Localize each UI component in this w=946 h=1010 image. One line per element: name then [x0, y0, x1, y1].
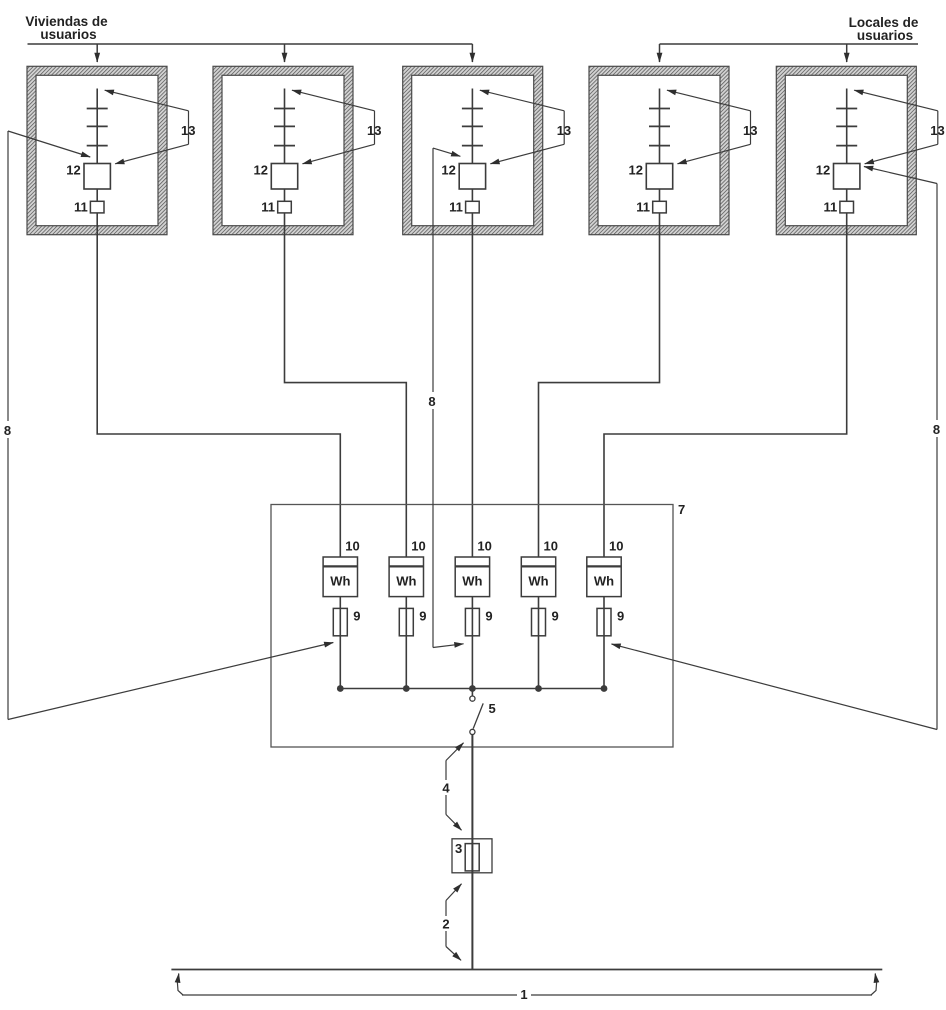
svg-text:10: 10	[477, 539, 491, 554]
wire: service drop arrow into dwelling 4	[659, 44, 661, 62]
svg-text:9: 9	[552, 609, 559, 624]
leader 8 middle vertical	[432, 148, 434, 647]
safety fuse 9 #3	[465, 608, 479, 635]
svg-text:2: 2	[442, 917, 449, 932]
svg-text:13: 13	[367, 123, 381, 138]
dwelling enclosure 5 inner wall	[785, 75, 907, 225]
energy meter 10 (Wh) #2	[389, 557, 423, 597]
leader arrow 13 to riser top (dwelling 4)	[667, 90, 751, 111]
safety fuse 9 #5	[597, 608, 611, 635]
wire: individual derivation from dwelling 3 to meter 3	[471, 235, 473, 557]
svg-text:12: 12	[629, 163, 643, 178]
label 11 (dwelling 5)	[823, 200, 837, 215]
label 2	[440, 916, 452, 932]
safety fuse 9 #4	[532, 608, 546, 635]
general protection box 3 (outer)	[452, 839, 492, 873]
dwelling enclosure 4 inner wall	[598, 75, 720, 225]
label 12 (dwelling 1)	[66, 163, 80, 178]
label 8 (middle)	[426, 392, 439, 409]
leader 4 line	[445, 761, 447, 815]
wire: top supply bus (left, viviendas)	[28, 43, 473, 45]
leader arrow 13 to device 12 (dwelling 4)	[678, 144, 751, 164]
junction node at busbar under meter 3	[469, 685, 476, 692]
svg-text:8: 8	[933, 422, 940, 437]
svg-text:usuarios: usuarios	[40, 27, 96, 42]
svg-text:13: 13	[557, 123, 571, 138]
leader 8 right lower arrow to fuse 5	[612, 644, 938, 730]
branch circuit tap 1 in dwelling 5	[836, 108, 857, 110]
wire: individual derivation from dwelling 2 to meter 2	[285, 235, 407, 557]
label 10 (meter 2)	[411, 539, 425, 554]
leader 13 bracket (dwelling 4)	[750, 111, 752, 145]
net label: Viviendas de usuarios	[25, 14, 108, 42]
dwelling enclosure 3 (hatched wall)	[403, 66, 543, 234]
branch circuit tap 3 in dwelling 5	[836, 145, 857, 147]
wire: meter 1 tail through fuse to busbar	[339, 597, 341, 689]
junction node at busbar under meter 1	[337, 685, 344, 692]
leader arrow 4 lower	[446, 815, 462, 831]
svg-text:Wh: Wh	[528, 574, 548, 589]
wire: individual derivation from dwelling 4 to meter 4	[539, 235, 660, 557]
label 11 (dwelling 2)	[261, 200, 275, 215]
leader 8 left lower arrow to fuse 1	[8, 643, 333, 720]
leader 8 middle lower arrow to fuse 3	[433, 644, 464, 648]
branch circuit tap 3 in dwelling 3	[462, 145, 483, 147]
switch 5 lower terminal	[470, 729, 475, 734]
wire: individual derivation from dwelling 5 to meter 5	[604, 235, 847, 557]
wire: interior riser in dwelling 5	[846, 89, 848, 235]
branch circuit tap 1 in dwelling 4	[649, 108, 670, 110]
leader 8 left upper arrow into dwelling 1	[8, 131, 90, 157]
ICP box 11 in dwelling 2	[278, 201, 292, 213]
leader 13 bracket (dwelling 5)	[937, 111, 939, 145]
svg-text:10: 10	[411, 539, 425, 554]
energy meter 10 (Wh) #1	[323, 557, 357, 597]
leader arrow 13 to device 12 (dwelling 5)	[865, 144, 938, 164]
wire: meter 2 tail through fuse to busbar	[405, 597, 407, 689]
svg-text:Wh: Wh	[462, 574, 482, 589]
leader 2 line	[445, 901, 447, 947]
branch circuit tap 2 in dwelling 4	[649, 125, 670, 127]
dwelling enclosure 5 (hatched wall)	[776, 66, 916, 234]
label 12 (dwelling 3)	[441, 163, 455, 178]
svg-text:9: 9	[485, 609, 492, 624]
energy meter 10 (Wh) #3	[455, 557, 489, 597]
wire: interior riser in dwelling 1	[96, 89, 98, 235]
label 10 (meter 4)	[544, 539, 558, 554]
svg-text:12: 12	[441, 163, 455, 178]
label 13 (dwelling 1)	[181, 123, 195, 138]
leader 8 right vertical	[936, 184, 938, 730]
wire: top supply bus (right, locales)	[660, 43, 919, 45]
label 13 (dwelling 3)	[557, 123, 571, 138]
protection device box 12 in dwelling 1	[84, 164, 110, 190]
svg-text:13: 13	[743, 123, 757, 138]
svg-text:1: 1	[520, 987, 527, 1002]
ICP box 11 in dwelling 1	[90, 201, 104, 213]
leader arrow 2 upper	[446, 884, 462, 901]
wire: service drop arrow into dwelling 3	[471, 44, 473, 62]
junction node at busbar under meter 5	[601, 685, 608, 692]
branch circuit tap 2 in dwelling 5	[836, 125, 857, 127]
dwelling enclosure 1 (hatched wall)	[27, 66, 167, 234]
leader arrow 13 to device 12 (dwelling 3)	[490, 144, 564, 164]
wire: individual derivation from dwelling 1 to meter 1	[97, 235, 340, 557]
protection device box 12 in dwelling 4	[646, 164, 672, 190]
energy meter 10 (Wh) #4	[521, 557, 555, 597]
switch 5 blade	[473, 703, 483, 728]
svg-text:Wh: Wh	[594, 574, 614, 589]
label 10 (meter 5)	[609, 539, 623, 554]
leader arrow 13 to riser top (dwelling 3)	[480, 90, 564, 111]
junction node at busbar under meter 2	[403, 685, 410, 692]
leader arrow 13 to device 12 (dwelling 2)	[303, 144, 375, 164]
label 9 (fuse 1)	[353, 609, 360, 624]
leader arrow 1 right	[871, 974, 877, 996]
leader 8 middle upper arrow	[433, 148, 460, 156]
leader arrow 13 to riser top (dwelling 5)	[854, 90, 938, 111]
label 7	[678, 502, 685, 517]
branch circuit tap 2 in dwelling 1	[87, 125, 108, 127]
svg-text:Wh: Wh	[396, 574, 416, 589]
branch circuit tap 1 in dwelling 2	[274, 108, 295, 110]
ICP box 11 in dwelling 3	[466, 201, 480, 213]
svg-text:7: 7	[678, 502, 685, 517]
wire: service drop arrow into dwelling 5	[846, 44, 848, 62]
svg-text:5: 5	[489, 701, 496, 716]
protection device box 12 in dwelling 5	[834, 164, 860, 190]
label 10 (meter 3)	[477, 539, 491, 554]
leader 1 line	[182, 994, 872, 996]
svg-text:3: 3	[455, 841, 462, 856]
label 9 (fuse 5)	[617, 609, 624, 624]
ICP box 11 in dwelling 5	[840, 201, 854, 213]
svg-text:8: 8	[428, 394, 435, 409]
label 13 (dwelling 2)	[367, 123, 381, 138]
wire: meter 3 tail through fuse to busbar	[471, 597, 473, 689]
switch 5 upper terminal	[470, 696, 475, 701]
svg-text:12: 12	[254, 163, 268, 178]
label 12 (dwelling 2)	[254, 163, 268, 178]
label 9 (fuse 4)	[552, 609, 559, 624]
dwelling enclosure 3 inner wall	[412, 75, 534, 225]
svg-text:12: 12	[66, 163, 80, 178]
leader arrow 13 to riser top (dwelling 1)	[105, 90, 189, 111]
svg-text:9: 9	[617, 609, 624, 624]
wire: service drop arrow into dwelling 1	[96, 44, 98, 62]
wire: distribution network line	[171, 969, 882, 971]
svg-text:9: 9	[419, 609, 426, 624]
wire: meter room busbar	[340, 688, 604, 690]
leader 13 bracket (dwelling 3)	[563, 111, 565, 145]
label 11 (dwelling 4)	[636, 200, 650, 215]
svg-text:8: 8	[4, 423, 11, 438]
safety fuse 9 #1	[333, 608, 347, 635]
svg-text:usuarios: usuarios	[857, 28, 913, 43]
protection device box 12 in dwelling 3	[459, 164, 485, 190]
svg-text:10: 10	[345, 539, 359, 554]
dwelling enclosure 2 (hatched wall)	[213, 66, 353, 234]
leader 8 right upper arrow into dwelling 5	[864, 167, 937, 184]
wire: stub from busbar to switch	[471, 689, 473, 696]
junction node at busbar under meter 4	[535, 685, 542, 692]
branch circuit tap 3 in dwelling 2	[274, 145, 295, 147]
wire: interior riser in dwelling 2	[284, 89, 286, 235]
label 9 (fuse 3)	[485, 609, 492, 624]
branch circuit tap 2 in dwelling 3	[462, 125, 483, 127]
ICP box 11 in dwelling 4	[653, 201, 667, 213]
dwelling enclosure 4 (hatched wall)	[589, 66, 729, 234]
label 11 (dwelling 1)	[74, 200, 88, 215]
svg-text:12: 12	[816, 163, 830, 178]
branch circuit tap 1 in dwelling 1	[87, 108, 108, 110]
net label: Locales de usuarios	[849, 15, 919, 43]
branch circuit tap 2 in dwelling 2	[274, 125, 295, 127]
label 12 (dwelling 5)	[816, 163, 830, 178]
svg-text:13: 13	[181, 123, 195, 138]
wire: meter 4 tail through fuse to busbar	[538, 597, 540, 689]
label 10 (meter 1)	[345, 539, 359, 554]
label 4	[440, 780, 452, 796]
safety fuse 9 #2	[399, 608, 413, 635]
leader arrow 13 to device 12 (dwelling 1)	[115, 144, 188, 164]
svg-text:11: 11	[74, 200, 88, 215]
label 8 (left)	[1, 421, 14, 438]
svg-text:10: 10	[544, 539, 558, 554]
wire: meter 5 tail through fuse to busbar	[603, 597, 605, 689]
label 13 (dwelling 5)	[930, 123, 944, 138]
label 5	[489, 701, 496, 716]
label 12 (dwelling 4)	[629, 163, 643, 178]
branch circuit tap 1 in dwelling 3	[462, 108, 483, 110]
leader 8 left vertical	[7, 131, 9, 720]
leader 13 bracket (dwelling 2)	[374, 111, 376, 145]
wire: service drop arrow into dwelling 2	[284, 44, 286, 62]
general protection box 3 fuse	[465, 844, 479, 871]
wire: main feeder (linea general de alimentacion)	[471, 735, 473, 970]
dwelling enclosure 1 inner wall	[36, 75, 158, 225]
svg-text:11: 11	[261, 200, 275, 215]
label 3	[455, 841, 462, 856]
svg-text:11: 11	[823, 200, 837, 215]
label 13 (dwelling 4)	[743, 123, 757, 138]
leader 13 bracket (dwelling 1)	[188, 111, 190, 145]
wire: interior riser in dwelling 3	[471, 89, 473, 235]
leader arrow 13 to riser top (dwelling 2)	[292, 90, 375, 111]
energy meter 10 (Wh) #5	[587, 557, 621, 597]
svg-text:11: 11	[449, 200, 463, 215]
svg-text:9: 9	[353, 609, 360, 624]
svg-text:13: 13	[930, 123, 944, 138]
protection device box 12 in dwelling 2	[271, 164, 297, 190]
svg-text:4: 4	[442, 781, 450, 796]
svg-text:10: 10	[609, 539, 623, 554]
leader arrow 2 lower	[446, 947, 461, 961]
wire: interior riser in dwelling 4	[659, 89, 661, 235]
svg-text:Wh: Wh	[330, 574, 350, 589]
branch circuit tap 3 in dwelling 1	[87, 145, 108, 147]
svg-text:11: 11	[636, 200, 650, 215]
leader arrow 4 upper	[446, 743, 464, 761]
dwelling enclosure 2 inner wall	[222, 75, 344, 225]
label 11 (dwelling 3)	[449, 200, 463, 215]
label 9 (fuse 2)	[419, 609, 426, 624]
label 8 (right)	[930, 420, 943, 437]
branch circuit tap 3 in dwelling 4	[649, 145, 670, 147]
leader arrow 1 left	[177, 974, 183, 996]
label 1	[517, 986, 531, 1002]
metering room enclosure 7	[271, 505, 673, 748]
